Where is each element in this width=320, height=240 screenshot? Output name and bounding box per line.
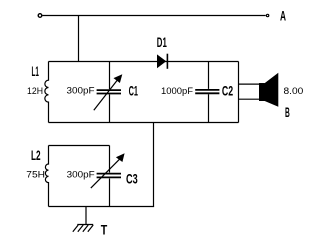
svg-text:T: T <box>101 221 108 237</box>
svg-text:C1: C1 <box>129 83 139 99</box>
speaker B <box>259 73 278 107</box>
wire speaker stub bottom <box>239 98 260 100</box>
label 300pF value of C3 <box>67 169 96 179</box>
label 12H value of L1 <box>27 86 43 96</box>
label node A <box>280 8 286 24</box>
wire ground stem <box>85 207 87 225</box>
label C1 <box>129 83 139 99</box>
capacitor C3 (variable) <box>91 146 125 207</box>
svg-text:D1: D1 <box>157 34 167 50</box>
ground (earth symbol, node T) <box>73 225 93 232</box>
svg-text:C3: C3 <box>126 171 138 187</box>
svg-text:B: B <box>285 104 290 120</box>
label T <box>101 221 108 237</box>
label L2 <box>31 147 41 163</box>
label 1000pF value of C2 <box>161 86 194 96</box>
label D1 <box>157 34 167 50</box>
svg-text:300pF: 300pF <box>67 86 96 96</box>
label 75H value of L2 <box>26 170 45 180</box>
svg-text:L2: L2 <box>31 147 41 163</box>
label 300pF value of C1 <box>67 86 96 96</box>
svg-text:C2: C2 <box>222 83 233 99</box>
capacitor C2 <box>195 62 219 123</box>
wire antenna drop <box>78 16 80 62</box>
diode D1 <box>157 54 167 69</box>
inductor L1 <box>45 62 49 123</box>
wire top rail <box>49 61 239 63</box>
wire speaker stub top <box>239 83 260 85</box>
wire lower bottom edge <box>49 206 155 208</box>
wire lower top edge <box>49 145 110 147</box>
svg-text:75H: 75H <box>26 170 45 180</box>
svg-text:L1: L1 <box>32 63 39 79</box>
svg-text:1000pF: 1000pF <box>161 86 194 96</box>
label L1 <box>32 63 39 79</box>
inductor L2 <box>45 146 48 207</box>
capacitor C1 (variable) <box>94 62 123 123</box>
terminal right circle, node A <box>266 14 268 16</box>
terminal left (antenna input circle) <box>38 14 42 18</box>
svg-text:8.00: 8.00 <box>284 86 304 96</box>
wire top antenna rail <box>43 15 266 17</box>
label 8.00 value of speaker B <box>284 86 304 96</box>
wire riser (bottom rail to lower tank) <box>153 123 155 207</box>
wire bottom rail <box>49 122 239 124</box>
label B <box>285 104 290 120</box>
svg-text:300pF: 300pF <box>67 169 96 179</box>
wire right edge <box>238 62 240 123</box>
svg-text:A: A <box>280 8 286 24</box>
label C2 <box>222 83 233 99</box>
svg-text:12H: 12H <box>27 86 43 96</box>
label C3 <box>126 171 138 187</box>
